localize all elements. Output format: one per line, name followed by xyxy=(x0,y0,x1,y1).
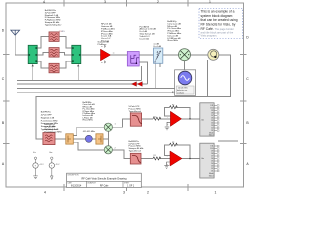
spec text IF hybrid xyxy=(41,112,59,131)
svg-text:4: 4 xyxy=(44,191,46,195)
svg-text:3: 3 xyxy=(104,0,106,4)
svg-text:DESCRIPTION: DESCRIPTION xyxy=(68,175,80,177)
op-amp U2 xyxy=(165,111,182,130)
svg-text:RF Café Visio Stencils Example: RF Café Visio Stencils Example Drawing xyxy=(81,178,127,181)
oscillator box xyxy=(172,70,196,96)
wire LO vertical to mixers xyxy=(107,131,109,145)
svg-text:455.455 MHz: 455.455 MHz xyxy=(83,131,95,133)
svg-text:R1: R1 xyxy=(154,117,156,119)
wire filter2 to sw2 xyxy=(59,52,72,55)
wire mixer to phase shifter xyxy=(190,54,207,56)
LO buffer arrows on rail 2 xyxy=(132,82,143,87)
spec text LPF2 xyxy=(129,141,145,153)
spec text IF filter xyxy=(45,124,62,133)
wire coupler to attenuator xyxy=(139,54,153,56)
hybrid (blue circle) xyxy=(85,135,92,142)
wire sw2 control xyxy=(77,65,79,81)
svg-text:Ripple=0.1 dB: Ripple=0.1 dB xyxy=(41,117,55,119)
wire sw1 to filter bank top xyxy=(37,37,49,48)
wire hybrid out to LO split xyxy=(103,138,109,140)
svg-text:Frequency=x MHz: Frequency=x MHz xyxy=(41,123,58,125)
spec text LPF1 xyxy=(129,106,142,113)
voltage source V1 xyxy=(33,152,45,179)
svg-text:6/12/2014: 6/12/2014 xyxy=(71,186,82,188)
wire attenuator bottom stubs xyxy=(155,63,157,88)
wire LPF1 to R1 xyxy=(142,118,153,120)
filter FL2 xyxy=(49,48,59,58)
frame border xyxy=(6,3,244,187)
wire opamp2 out to ADC2 xyxy=(182,158,200,160)
wire sw1 to filter bank mid xyxy=(37,52,49,55)
svg-text:Visio program.: Visio program. xyxy=(201,34,218,38)
wire IF filter to splitter xyxy=(55,138,66,140)
frame zone ticks top xyxy=(64,0,188,7)
op-amp U3 xyxy=(164,151,182,168)
svg-text:Type=Chebyshev: Type=Chebyshev xyxy=(41,129,59,131)
frame zone ticks bottom xyxy=(64,184,188,191)
wire opamp1 out to ADC1 xyxy=(182,118,200,120)
antenna xyxy=(11,30,20,35)
wire R3 to opamp2 xyxy=(160,158,171,160)
mixer MX3 (Q) xyxy=(104,146,112,154)
svg-text:IF=xx MHz: IF=xx MHz xyxy=(167,40,178,42)
svg-text:3.5/3.5: 3.5/3.5 xyxy=(59,31,65,33)
wire ADC clock stub xyxy=(218,140,238,142)
svg-text:Select: Select xyxy=(209,174,214,177)
svg-text:RF Cafe: RF Cafe xyxy=(100,186,109,188)
wire mixer Q out to LPF2 xyxy=(112,150,130,159)
svg-text:2: 2 xyxy=(157,0,159,4)
wire splitter upper to mixer I xyxy=(73,127,104,135)
svg-text:2: 2 xyxy=(147,191,149,195)
wire phase shifter port3 down xyxy=(206,60,208,96)
wire R1 to opamp1 xyxy=(160,118,171,120)
svg-text:+Vin: +Vin xyxy=(201,158,204,160)
svg-text:RF Café. The page border: RF Café. The page border xyxy=(201,27,234,31)
resistor R3 xyxy=(153,157,161,160)
wire mixer I out to LPF1 xyxy=(112,119,130,127)
combiner (orange block 2) xyxy=(96,134,103,144)
svg-text:oscillator: oscillator xyxy=(177,91,184,94)
voltage source V2 xyxy=(49,152,60,180)
svg-text:xx: xx xyxy=(101,62,103,64)
rail 2 xyxy=(17,83,148,85)
svg-text:IL=1 dB: IL=1 dB xyxy=(154,46,162,48)
wire splitter lower to mixer Q xyxy=(73,142,104,150)
switch SW1 xyxy=(28,45,37,66)
wire antenna feed xyxy=(15,35,28,55)
svg-text:Stamp=-80 dBc: Stamp=-80 dBc xyxy=(41,125,57,128)
frame zone letters right xyxy=(246,36,249,167)
wire LPF2 to R3 xyxy=(141,158,153,160)
svg-text:R2: R2 xyxy=(172,142,174,144)
coupler (purple block) xyxy=(127,52,139,67)
ground (opamp2) xyxy=(167,162,170,166)
ground (opamp1) xyxy=(167,122,170,126)
wire mixer LO from oscillator xyxy=(184,61,186,72)
svg-text:Type=Bessel: Type=Bessel xyxy=(129,151,142,153)
phase shifter (yellow circle) xyxy=(208,49,219,60)
wire filter3 to sw2 xyxy=(59,61,72,68)
rail 4 to oscillator pin xyxy=(17,91,175,93)
frame zone letters left xyxy=(2,29,5,167)
svg-text:Icc=5 mA: Icc=5 mA xyxy=(140,37,150,40)
spec text amplifier xyxy=(101,24,115,43)
spec text attenuator small xyxy=(154,44,162,48)
ADC U4 xyxy=(200,103,219,137)
svg-text:BaRF870s: BaRF870s xyxy=(41,112,51,114)
svg-text:Vcc: Vcc xyxy=(33,152,36,154)
rail 1 xyxy=(17,80,142,82)
amplifier U1 xyxy=(101,45,115,64)
svg-text:xx: xx xyxy=(101,46,103,48)
mixer MX2 (I) xyxy=(104,123,112,131)
svg-text:+Vin: +Vin xyxy=(201,120,204,122)
wire filter1 to sw2 xyxy=(59,37,72,48)
wire opamp1 feedback loop xyxy=(165,107,191,119)
mixer MX1 xyxy=(179,49,191,61)
svg-text:R1: R1 xyxy=(154,155,156,157)
svg-text:P1dB=xx: P1dB=xx xyxy=(98,44,108,46)
wire opamp2 feedback loop xyxy=(165,145,191,159)
frame zone ticks left xyxy=(3,55,10,144)
svg-text:1 OF 1: 1 OF 1 xyxy=(127,186,135,188)
attenuator AT1 xyxy=(154,48,163,64)
filter FL3 xyxy=(49,63,59,73)
svg-text:xx: xx xyxy=(113,52,115,54)
IF filter FL4 xyxy=(43,133,55,145)
svg-text:F-Center=xx MHz: F-Center=xx MHz xyxy=(41,119,58,122)
switch SW2 xyxy=(72,45,81,66)
svg-text:3: 3 xyxy=(123,191,125,195)
spec text mixer xyxy=(167,21,181,42)
spec text filter bank xyxy=(45,10,63,26)
wire splitter mid through hybrid xyxy=(73,138,96,140)
svg-text:1: 1 xyxy=(215,191,217,195)
spec text filter bank upper xyxy=(59,31,65,33)
svg-text:Select: Select xyxy=(209,134,214,137)
spec text IF splitter xyxy=(83,102,96,122)
wire sw1 to filter bank bottom xyxy=(37,61,49,68)
wire phase shifter to IF section xyxy=(36,55,231,139)
resistor R1 xyxy=(153,117,161,120)
resistor R2 (feedback ch1) xyxy=(170,106,178,109)
frame zone numbers top xyxy=(43,0,211,4)
svg-text:4: 4 xyxy=(43,0,45,4)
frame zone ticks right xyxy=(240,55,247,144)
ground (V1) xyxy=(33,176,38,179)
junction dots xyxy=(189,118,191,159)
svg-text:R2: R2 xyxy=(172,104,174,106)
filter FL1 xyxy=(49,32,59,42)
svg-text:4-Pole BPF: 4-Pole BPF xyxy=(41,115,53,117)
wire amp to coupler xyxy=(111,54,128,56)
spec text amplifier gain xyxy=(98,42,110,46)
wire coupler coupled port xyxy=(139,62,147,84)
wire sw1 control xyxy=(32,65,34,81)
wire coupler control to rail xyxy=(141,66,143,81)
svg-text:SHEET: SHEET xyxy=(124,183,129,185)
frame zone numbers bottom xyxy=(44,191,217,195)
svg-text:Type=Bessel: Type=Bessel xyxy=(129,111,142,113)
svg-text:IF=xx MHz: IF=xx MHz xyxy=(83,120,93,122)
lowpass filter LPF1 xyxy=(130,113,141,126)
svg-text:1: 1 xyxy=(209,0,211,4)
rail 3 xyxy=(17,88,175,90)
svg-text:Type=Chebyshev: Type=Chebyshev xyxy=(45,24,63,26)
lowpass filter LPF2 xyxy=(130,153,141,164)
ADC U5 xyxy=(200,143,219,178)
spec text attenuator xyxy=(140,25,157,40)
svg-text:Vee: Vee xyxy=(49,152,52,154)
ground arrow (V2) xyxy=(51,176,54,180)
wire sw2 to amp xyxy=(81,54,100,56)
wire attenuator to mixer xyxy=(163,54,179,56)
splitter (orange block 1) xyxy=(66,134,74,144)
resistor R4 (feedback ch2) xyxy=(170,143,178,146)
